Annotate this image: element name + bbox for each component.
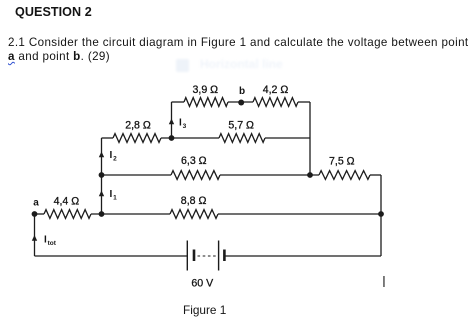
junction node branch4 left	[99, 211, 105, 217]
svg-text:I: I	[179, 118, 182, 129]
svg-text:2,8 Ω: 2,8 Ω	[125, 119, 151, 131]
current arrow Itot	[32, 235, 57, 248]
resistor R6 7,5 ohm	[319, 156, 370, 180]
wire branch2 left lead	[102, 137, 114, 139]
junction node at I3 riser base	[169, 135, 175, 141]
svg-text:8,8 Ω: 8,8 Ω	[181, 195, 207, 207]
resistor R5 6,3 ohm	[171, 155, 220, 179]
wire branch4 segment between R7 and junction	[91, 213, 170, 215]
faint watermark tooltip text	[200, 57, 283, 71]
node a	[32, 198, 40, 217]
svg-text:I: I	[110, 189, 113, 200]
wire branch3 right lead	[370, 174, 381, 176]
junction node branch3 left	[99, 172, 105, 178]
svg-text:b: b	[239, 86, 245, 97]
svg-text:3: 3	[183, 123, 187, 130]
resistor R2 4,2 ohm	[253, 84, 298, 106]
wire left outer rail	[34, 214, 36, 256]
caption Figure 1	[183, 303, 226, 317]
wire right inner rail	[309, 102, 311, 175]
heading QUESTION 2	[15, 5, 92, 19]
wire branch4 right segment	[218, 213, 381, 215]
wire branch3 middle segment	[220, 174, 319, 176]
junction node at 7,5 branch left	[307, 172, 313, 178]
svg-text:1: 1	[113, 195, 117, 202]
wire right outer rail	[380, 175, 382, 256]
svg-text:4,4 Ω: 4,4 Ω	[54, 196, 80, 208]
wire I3 branch riser	[171, 102, 173, 138]
svg-text:5,7 Ω: 5,7 Ω	[228, 119, 254, 131]
faint watermark tooltip icon	[176, 59, 189, 72]
resistor R7 4,4 ohm	[44, 196, 91, 219]
svg-text:6,3 Ω: 6,3 Ω	[181, 155, 207, 167]
current arrow I1	[99, 189, 117, 202]
svg-text:tot: tot	[48, 240, 57, 247]
svg-text:I: I	[110, 150, 113, 161]
wire left inner rail	[101, 138, 103, 214]
resistor R8 8,8 ohm	[170, 195, 218, 218]
junction node bottom right	[378, 211, 384, 217]
text cursor mark	[383, 276, 384, 287]
wire branch2 middle segment	[161, 137, 219, 139]
wire branch4 lead from node a	[35, 213, 45, 215]
svg-text:I: I	[44, 235, 47, 246]
wire top rail left segment	[172, 101, 185, 103]
resistor R4 5,7 ohm	[219, 119, 265, 142]
wire bottom rail right of battery	[224, 255, 381, 257]
current arrow I2	[99, 150, 117, 163]
question text	[8, 36, 474, 64]
wire top rail middle segment through node b	[228, 101, 253, 103]
svg-text:3,9 Ω: 3,9 Ω	[193, 84, 219, 96]
current arrow I3	[169, 118, 187, 131]
wire top rail right segment	[298, 101, 310, 103]
svg-text:2: 2	[113, 156, 117, 163]
wire bottom rail left of battery	[35, 255, 188, 257]
wire branch3 left lead	[102, 174, 172, 176]
resistor R3 2,8 ohm	[113, 119, 161, 142]
resistor R1 3,9 ohm	[184, 84, 228, 106]
svg-text:60 V: 60 V	[191, 278, 214, 290]
wire branch2 right segment	[265, 137, 310, 139]
svg-text:a: a	[33, 198, 39, 209]
node b	[238, 86, 245, 106]
svg-text:7,5 Ω: 7,5 Ω	[329, 156, 355, 168]
battery B1 60 V	[187, 241, 224, 290]
svg-text:4,2 Ω: 4,2 Ω	[263, 84, 289, 96]
